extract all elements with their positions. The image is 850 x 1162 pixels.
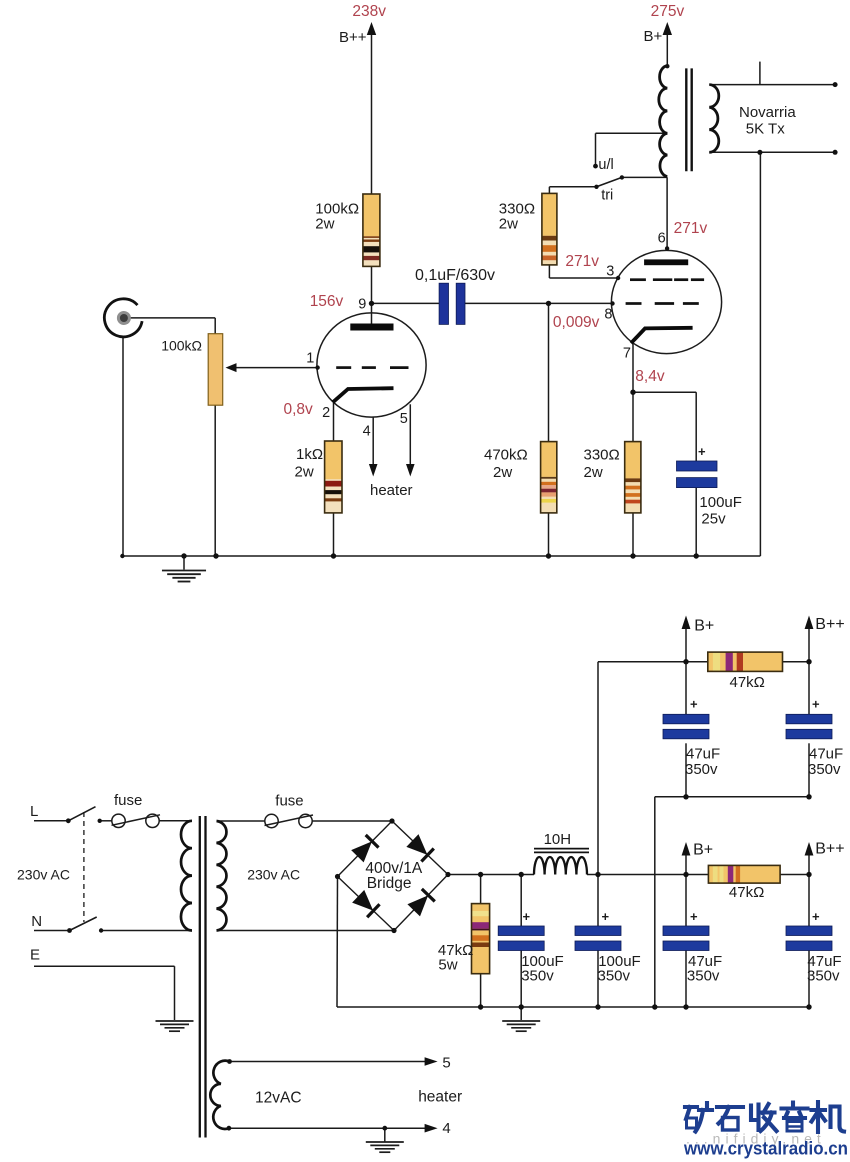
svg-text:350v: 350v <box>687 968 720 985</box>
svg-text:+: + <box>523 909 531 924</box>
svg-text:2w: 2w <box>499 216 518 233</box>
svg-text:2: 2 <box>322 405 330 421</box>
svg-text:N: N <box>31 913 42 930</box>
svg-text:350v: 350v <box>808 761 841 778</box>
svg-text:www.crystalradio.cn: www.crystalradio.cn <box>683 1139 848 1159</box>
svg-text:238v: 238v <box>352 3 386 20</box>
svg-text:B++: B++ <box>815 616 844 633</box>
svg-text:3: 3 <box>606 264 614 280</box>
svg-text:B+: B+ <box>693 842 713 859</box>
svg-text:5w: 5w <box>438 957 457 974</box>
svg-text:E: E <box>30 947 40 964</box>
svg-text:271v: 271v <box>674 220 708 237</box>
svg-text:8,4v: 8,4v <box>635 368 665 385</box>
svg-text:B+: B+ <box>694 618 714 635</box>
svg-text:350v: 350v <box>598 968 631 985</box>
svg-text:u/l: u/l <box>598 157 613 173</box>
svg-text:2w: 2w <box>584 464 603 481</box>
svg-text:350v: 350v <box>807 968 840 985</box>
svg-text:12vAC: 12vAC <box>255 1090 302 1107</box>
svg-text:fuse: fuse <box>275 793 303 810</box>
svg-text:156v: 156v <box>310 293 344 310</box>
svg-text:5: 5 <box>442 1055 450 1072</box>
svg-text:1kΩ: 1kΩ <box>296 446 323 463</box>
svg-text:470kΩ: 470kΩ <box>484 447 528 464</box>
svg-text:9: 9 <box>358 297 366 313</box>
svg-text:275v: 275v <box>651 3 685 20</box>
svg-text:0,009v: 0,009v <box>553 314 600 331</box>
svg-text:6: 6 <box>658 231 666 247</box>
svg-text:fuse: fuse <box>114 792 142 809</box>
svg-text:0,8v: 0,8v <box>284 401 314 418</box>
svg-text:10H: 10H <box>544 831 572 848</box>
svg-text:230v AC: 230v AC <box>247 867 300 883</box>
svg-text:Bridge: Bridge <box>367 875 412 892</box>
svg-text:B++: B++ <box>339 29 367 46</box>
svg-text:+: + <box>690 909 698 924</box>
svg-text:+: + <box>698 444 706 459</box>
svg-text:2w: 2w <box>295 464 314 481</box>
svg-text:47uF: 47uF <box>686 746 720 763</box>
svg-text:271v: 271v <box>565 253 599 270</box>
svg-text:230v AC: 230v AC <box>17 867 70 883</box>
svg-text:L: L <box>30 803 38 820</box>
svg-text:4: 4 <box>363 424 371 440</box>
svg-text:5K Tx: 5K Tx <box>746 121 785 138</box>
svg-text:B+: B+ <box>644 28 663 45</box>
svg-text:47kΩ: 47kΩ <box>730 674 765 691</box>
svg-text:350v: 350v <box>685 761 718 778</box>
svg-text:25v: 25v <box>701 511 726 528</box>
svg-text:heater: heater <box>370 482 413 499</box>
svg-text:heater: heater <box>418 1089 462 1106</box>
svg-text:+: + <box>602 909 610 924</box>
svg-text:Novarria: Novarria <box>739 104 796 121</box>
svg-text:B++: B++ <box>815 841 844 858</box>
svg-text:tri: tri <box>601 188 613 204</box>
svg-text:4: 4 <box>442 1120 450 1137</box>
svg-text:1: 1 <box>306 351 314 367</box>
svg-text:+: + <box>812 909 820 924</box>
svg-text:47kΩ: 47kΩ <box>729 884 764 901</box>
svg-text:100uF: 100uF <box>699 494 742 511</box>
svg-text:+: + <box>690 697 698 712</box>
svg-text:2w: 2w <box>493 464 512 481</box>
svg-text:7: 7 <box>623 346 631 362</box>
svg-text:350v: 350v <box>521 968 554 985</box>
svg-text:5: 5 <box>400 411 408 427</box>
svg-text:+: + <box>812 697 820 712</box>
svg-text:100kΩ: 100kΩ <box>161 338 202 354</box>
svg-text:330Ω: 330Ω <box>584 447 620 464</box>
svg-text:8: 8 <box>604 307 612 323</box>
svg-text:47uF: 47uF <box>809 746 843 763</box>
svg-text:2w: 2w <box>315 216 334 233</box>
svg-text:0,1uF/630v: 0,1uF/630v <box>415 267 495 284</box>
